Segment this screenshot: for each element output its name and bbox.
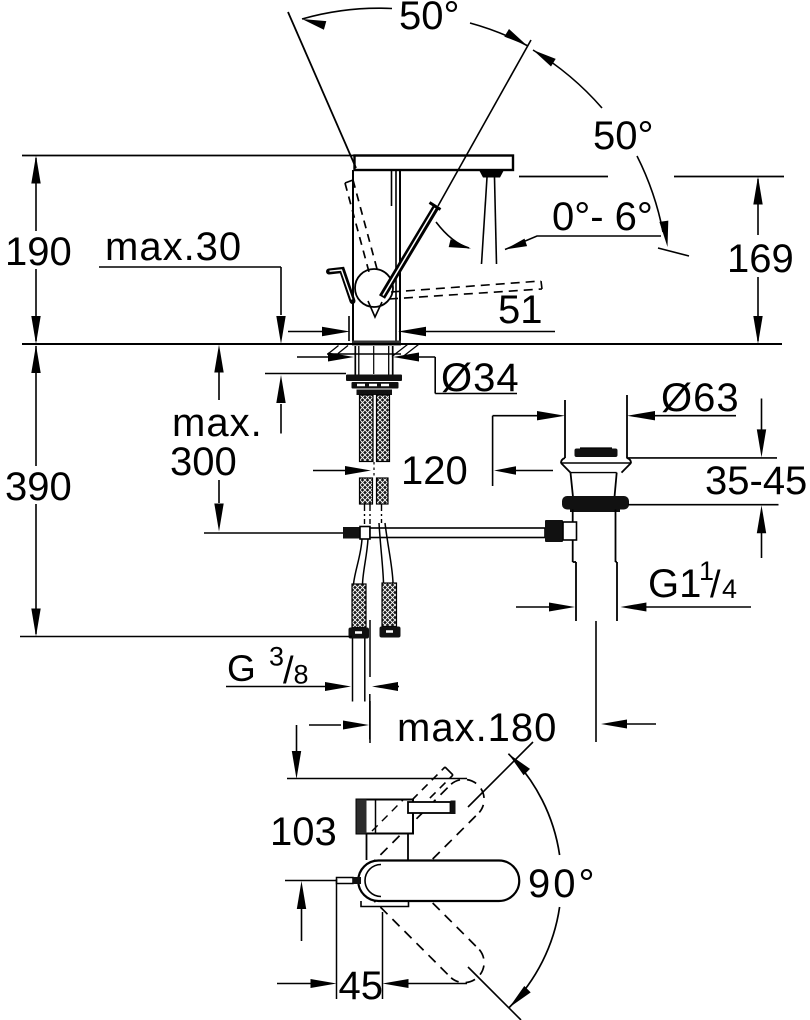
svg-text:169: 169 [727,237,794,281]
svg-text:4: 4 [722,574,737,604]
svg-text:Ø34: Ø34 [441,356,520,400]
svg-text:3: 3 [269,642,284,672]
svg-text:/: / [710,564,721,606]
svg-text:35-45: 35-45 [705,459,807,503]
svg-text:103: 103 [270,810,337,854]
svg-text:190: 190 [5,230,72,274]
svg-text:390: 390 [5,465,72,509]
svg-text:max.30: max.30 [105,225,242,269]
svg-text:max.180: max.180 [397,706,557,750]
svg-text:8: 8 [294,660,309,690]
svg-text:50°: 50° [593,114,654,158]
svg-text:50°: 50° [399,0,460,38]
svg-text:G1: G1 [648,562,701,606]
svg-text:G: G [227,648,256,689]
svg-text:300: 300 [170,440,237,484]
svg-text:0°- 6°: 0°- 6° [552,195,653,239]
svg-text:120: 120 [401,449,468,493]
svg-text:45: 45 [339,964,384,1008]
svg-text:51: 51 [498,288,543,332]
svg-text:90°: 90° [528,862,598,906]
svg-text:Ø63: Ø63 [661,376,740,420]
svg-text:max.: max. [172,401,263,445]
